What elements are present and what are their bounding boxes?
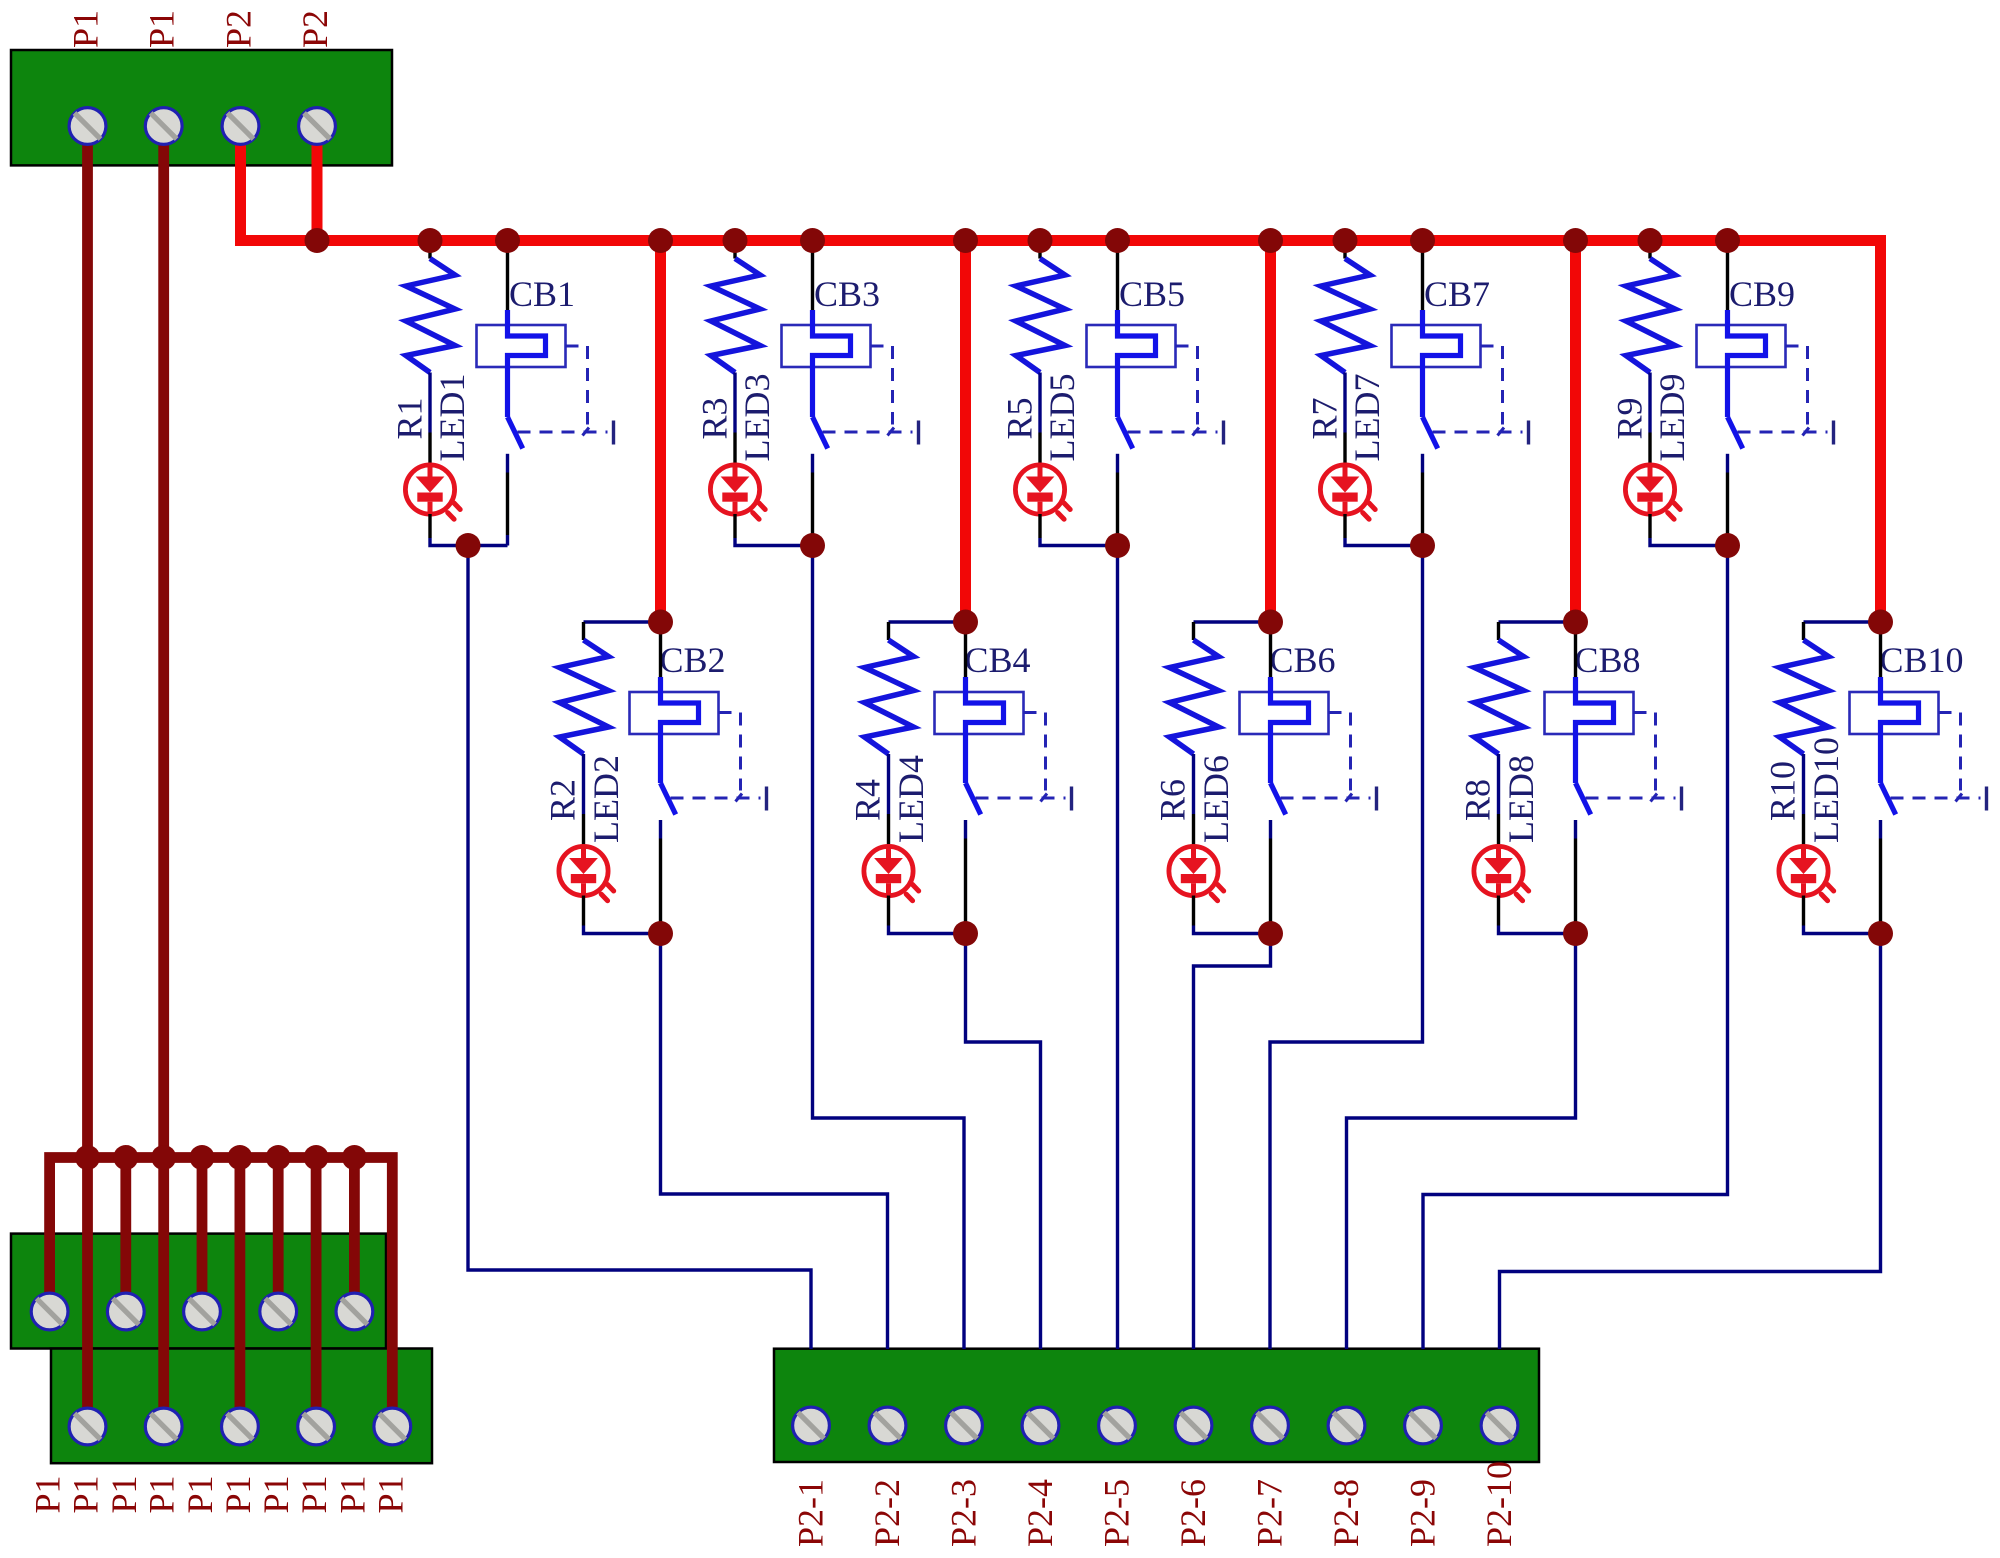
svg-text:R8: R8	[1458, 779, 1498, 821]
svg-text:R7: R7	[1305, 397, 1345, 439]
svg-text:CB5: CB5	[1119, 274, 1185, 314]
svg-text:P2: P2	[219, 10, 259, 48]
svg-text:CB8: CB8	[1575, 640, 1641, 680]
svg-text:LED5: LED5	[1042, 374, 1082, 462]
svg-text:CB7: CB7	[1424, 274, 1490, 314]
svg-text:P1: P1	[142, 1475, 182, 1513]
svg-text:P2-9: P2-9	[1403, 1479, 1443, 1547]
svg-text:CB6: CB6	[1270, 640, 1336, 680]
svg-text:P1: P1	[294, 1475, 334, 1513]
svg-text:P2-5: P2-5	[1097, 1479, 1137, 1547]
svg-text:CB1: CB1	[509, 274, 575, 314]
svg-text:LED6: LED6	[1196, 755, 1236, 843]
svg-text:P2-1: P2-1	[791, 1479, 831, 1547]
svg-text:LED8: LED8	[1501, 755, 1541, 843]
svg-text:R3: R3	[695, 397, 735, 439]
svg-text:P1: P1	[370, 1475, 410, 1513]
svg-text:P2-2: P2-2	[867, 1479, 907, 1547]
svg-text:P1: P1	[142, 10, 182, 48]
svg-text:P2-8: P2-8	[1326, 1479, 1366, 1547]
svg-text:P1: P1	[66, 1475, 106, 1513]
svg-text:LED10: LED10	[1806, 737, 1846, 843]
svg-text:P1: P1	[104, 1475, 144, 1513]
svg-text:P1: P1	[66, 10, 106, 48]
svg-text:R1: R1	[390, 397, 430, 439]
svg-text:CB3: CB3	[814, 274, 880, 314]
svg-text:R10: R10	[1763, 761, 1803, 821]
svg-text:LED4: LED4	[891, 755, 931, 843]
svg-text:P2: P2	[295, 10, 335, 48]
svg-text:R5: R5	[1000, 397, 1040, 439]
svg-text:CB4: CB4	[965, 640, 1031, 680]
svg-text:R4: R4	[848, 779, 888, 821]
svg-text:P1: P1	[332, 1475, 372, 1513]
svg-text:R9: R9	[1610, 397, 1650, 439]
svg-text:P2-6: P2-6	[1173, 1479, 1213, 1547]
svg-text:CB2: CB2	[660, 640, 726, 680]
svg-text:P1: P1	[218, 1475, 258, 1513]
svg-text:LED7: LED7	[1347, 374, 1387, 462]
svg-text:P2-4: P2-4	[1020, 1479, 1060, 1547]
svg-text:P2-3: P2-3	[944, 1479, 984, 1547]
svg-text:R2: R2	[543, 779, 583, 821]
svg-text:R6: R6	[1153, 779, 1193, 821]
svg-text:LED2: LED2	[586, 755, 626, 843]
svg-text:CB9: CB9	[1729, 274, 1795, 314]
svg-text:LED3: LED3	[737, 374, 777, 462]
svg-text:P2-10: P2-10	[1479, 1461, 1519, 1547]
svg-text:P1: P1	[28, 1475, 68, 1513]
svg-text:P1: P1	[256, 1475, 296, 1513]
svg-text:LED1: LED1	[432, 374, 472, 462]
svg-text:LED9: LED9	[1652, 374, 1692, 462]
svg-text:P2-7: P2-7	[1250, 1479, 1290, 1547]
svg-text:CB10: CB10	[1880, 640, 1964, 680]
svg-text:P1: P1	[180, 1475, 220, 1513]
